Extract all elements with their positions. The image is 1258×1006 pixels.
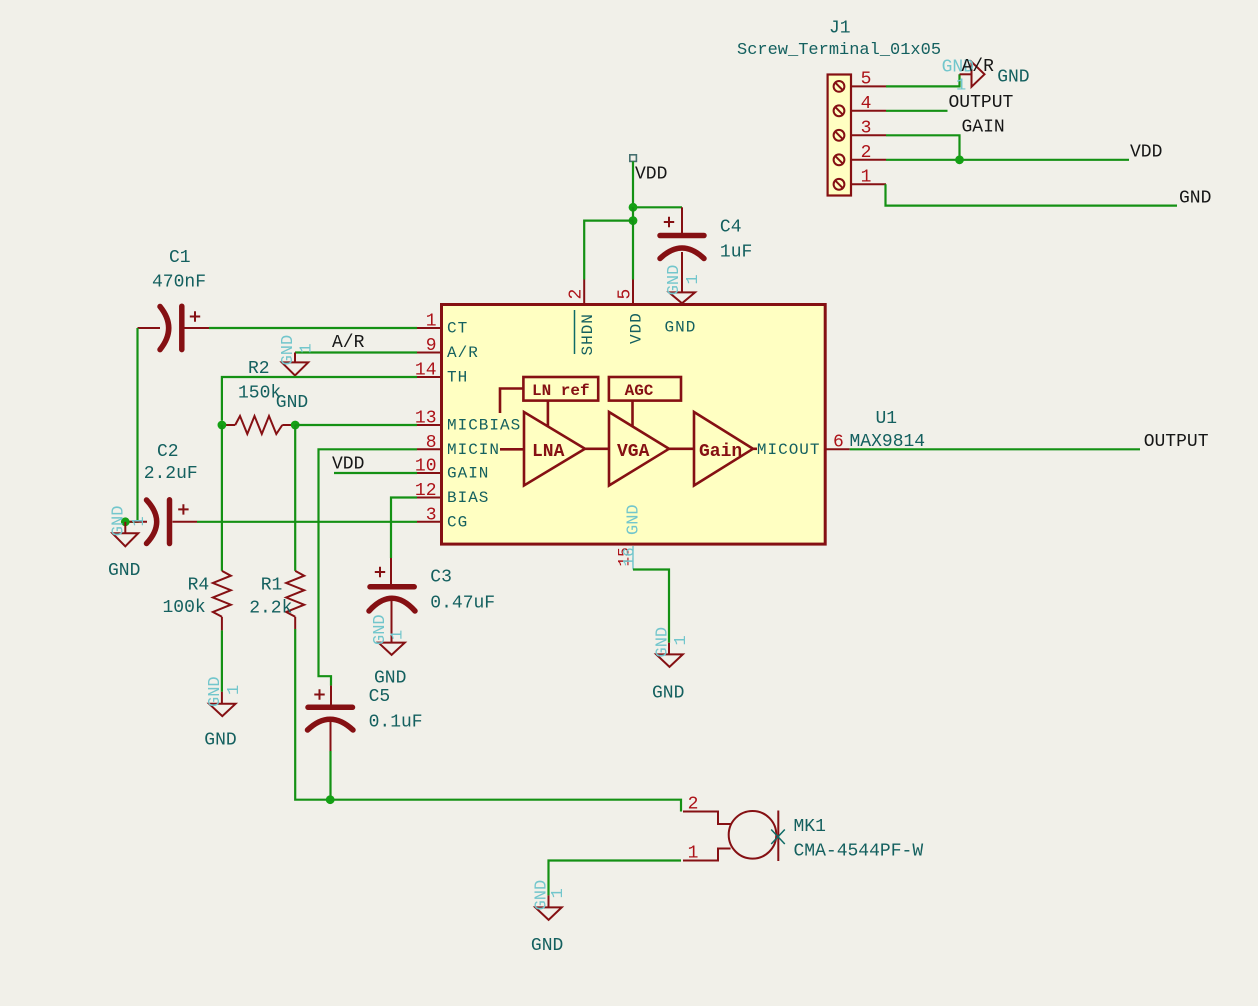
svg-text:GND: GND	[665, 265, 684, 296]
internal line MICIN to LNA	[500, 448, 524, 451]
wire J1 pin1 GND	[886, 184, 1178, 205]
wire R2 right junction down to R1	[294, 425, 296, 571]
svg-text:2.2uF: 2.2uF	[144, 464, 198, 484]
wire junction to junction	[632, 207, 634, 220]
svg-text:GND: GND	[108, 561, 140, 581]
wire U1 pin9 A/R to ground	[295, 351, 417, 353]
svg-text:A/R: A/R	[447, 344, 479, 362]
svg-text:R1: R1	[261, 576, 283, 596]
svg-text:2: 2	[861, 143, 872, 163]
wire VDD label to U1 pin10 GAIN	[334, 472, 417, 474]
svg-text:1: 1	[426, 312, 437, 332]
svg-text:VDD: VDD	[635, 165, 667, 185]
svg-text:2: 2	[688, 795, 699, 815]
svg-text:SHDN: SHDN	[579, 313, 597, 355]
svg-text:1: 1	[684, 274, 703, 284]
U1 pin 14 TH	[415, 361, 468, 387]
svg-text:C5: C5	[369, 687, 391, 707]
svg-text:Gain: Gain	[699, 442, 742, 462]
microphone MK1	[683, 795, 785, 864]
svg-text:GND: GND	[997, 68, 1029, 88]
svg-text:C3: C3	[430, 568, 452, 588]
svg-text:16: 16	[621, 547, 639, 566]
wire U1 pin8 MICIN down to C5	[319, 449, 418, 685]
junction C5 on rail	[326, 795, 335, 804]
svg-text:C4: C4	[720, 218, 742, 238]
J1 pin 4	[852, 94, 886, 114]
wire U1 pin12 BIAS down to C3	[391, 498, 417, 559]
resistor R2	[226, 416, 291, 434]
wire VDD to C4	[633, 206, 682, 208]
svg-text:A/R: A/R	[962, 57, 995, 77]
ground symbol at R4	[204, 676, 244, 750]
wire J1 pin3 to junction	[886, 135, 960, 160]
capacitor C4	[660, 207, 704, 292]
svg-text:J1: J1	[829, 19, 851, 39]
svg-text:GND: GND	[371, 614, 390, 645]
svg-text:GND: GND	[279, 335, 298, 366]
svg-text:2: 2	[567, 289, 587, 300]
J1 pin 2	[852, 143, 886, 163]
svg-text:GAIN: GAIN	[962, 118, 1005, 138]
svg-text:GND: GND	[531, 936, 563, 956]
svg-text:GND: GND	[1179, 189, 1211, 209]
internal box LN ref	[523, 377, 598, 401]
wire R4 to ground	[221, 630, 223, 691]
svg-text:BIAS: BIAS	[447, 489, 489, 507]
internal line Gain to MICOUT	[753, 447, 757, 450]
U1 pin name SHDN with overline	[575, 310, 598, 356]
svg-text:MICOUT: MICOUT	[757, 441, 821, 459]
svg-text:GND: GND	[665, 319, 697, 337]
wire J1 pin4 OUTPUT	[886, 110, 948, 112]
svg-text:VDD: VDD	[332, 455, 364, 475]
wire microphone pin1 to ground	[549, 861, 682, 896]
svg-text:3: 3	[861, 119, 872, 139]
svg-text:0.47uF: 0.47uF	[430, 594, 495, 614]
wire J1 pin2 VDD	[886, 159, 1129, 161]
resistor R4	[213, 571, 231, 631]
svg-text:1: 1	[688, 844, 699, 864]
wire R1 down and bottom rail to microphone pin2	[295, 629, 681, 812]
svg-text:GND: GND	[374, 669, 406, 689]
U1 pin 10 GAIN	[415, 457, 490, 483]
U1 pin 3 CG	[417, 505, 468, 531]
internal line LNA to VGA	[585, 447, 609, 450]
J1 pin 1	[852, 168, 886, 188]
svg-text:Screw_Terminal_01x05: Screw_Terminal_01x05	[737, 41, 941, 60]
svg-text:VGA: VGA	[617, 442, 650, 462]
junction R2 right	[291, 421, 300, 430]
U1 pin 1 CT	[417, 312, 468, 338]
power symbol VDD	[630, 155, 668, 185]
wire J1 pin5 to GND	[886, 74, 960, 86]
junction J1 pin2/pin3	[955, 155, 964, 164]
U1 pin 12 BIAS	[415, 481, 490, 507]
U1 pin 5 VDD stub	[616, 280, 636, 304]
svg-text:OUTPUT: OUTPUT	[1144, 432, 1209, 452]
connector J1 body	[828, 75, 851, 196]
svg-text:GND: GND	[652, 684, 684, 704]
svg-text:CT: CT	[447, 320, 468, 338]
ground symbol at U1 pin9	[279, 335, 317, 376]
wire R2 right to U1 pin13	[295, 424, 417, 426]
capacitor C3	[369, 558, 415, 643]
U1 pin 6 MICOUT	[757, 432, 850, 459]
svg-text:MICIN: MICIN	[447, 441, 500, 459]
svg-text:5: 5	[861, 70, 872, 90]
svg-text:1: 1	[672, 635, 691, 645]
svg-text:6: 6	[833, 432, 844, 452]
amplifier LNA	[524, 412, 585, 486]
svg-text:GND: GND	[204, 731, 236, 751]
op-amp IC U1 body	[442, 305, 826, 545]
svg-text:GND: GND	[109, 506, 128, 537]
svg-text:1: 1	[389, 630, 408, 640]
wire VDD to U1 pin5	[632, 221, 634, 280]
wire C5 bottom to rail	[329, 751, 331, 800]
U1 pin 13 MICBIAS	[415, 409, 521, 435]
junction R2 left	[218, 421, 227, 430]
svg-text:150k: 150k	[238, 384, 281, 404]
svg-text:C2: C2	[157, 442, 179, 462]
capacitor C5	[308, 686, 354, 751]
U1 pin 8 MICIN	[417, 433, 500, 459]
internal line AGC to VGA	[631, 401, 634, 426]
ground symbol at C3	[371, 614, 408, 688]
wire U1 hidden GND pin to ground	[633, 570, 669, 643]
ground symbol at microphone	[531, 880, 568, 956]
svg-text:LNA: LNA	[532, 442, 565, 462]
junction C2 ground node	[121, 517, 130, 526]
svg-text:R2: R2	[248, 359, 270, 379]
svg-text:GND: GND	[654, 627, 673, 658]
svg-text:GND: GND	[625, 504, 644, 535]
ground symbol at C4	[665, 265, 703, 304]
svg-text:13: 13	[415, 409, 437, 429]
svg-text:GND: GND	[206, 676, 225, 707]
svg-text:R4: R4	[188, 576, 210, 596]
svg-text:2.2k: 2.2k	[249, 599, 292, 619]
svg-text:1: 1	[861, 168, 872, 188]
svg-text:14: 14	[415, 361, 437, 381]
wire to SHDN branch	[584, 221, 633, 280]
svg-text:1: 1	[298, 343, 317, 353]
svg-text:TH: TH	[447, 369, 468, 387]
svg-text:4: 4	[861, 94, 872, 114]
capacitor C2	[129, 500, 197, 544]
svg-text:470nF: 470nF	[152, 273, 206, 293]
svg-text:CG: CG	[447, 513, 468, 531]
svg-text:1: 1	[225, 685, 244, 695]
svg-text:LN ref: LN ref	[532, 382, 590, 400]
svg-text:100k: 100k	[163, 598, 206, 618]
amplifier Gain	[694, 412, 753, 486]
svg-text:8: 8	[426, 433, 437, 453]
internal box AGC	[609, 377, 681, 401]
wire U1 pin3 CG to C2	[197, 521, 417, 523]
J1 pin 5	[852, 70, 886, 90]
wire U1 MICOUT to OUTPUT	[850, 448, 1140, 450]
amplifier VGA	[609, 412, 669, 486]
svg-text:1: 1	[549, 888, 568, 898]
wire R2 left junction down to R4	[221, 425, 223, 571]
wire C1 to U1 pin1 CT	[209, 327, 417, 329]
capacitor C1	[138, 306, 210, 349]
svg-text:1: 1	[130, 516, 149, 526]
junction VDD upper	[629, 203, 638, 212]
svg-text:C1: C1	[169, 248, 191, 268]
svg-text:12: 12	[415, 481, 437, 501]
ground symbol at J1 pin5 (rotated right)	[942, 58, 985, 96]
svg-text:CMA-4544PF-W: CMA-4544PF-W	[794, 842, 924, 862]
svg-text:VDD: VDD	[1130, 143, 1162, 163]
wire C1 left down to C2 node	[130, 328, 138, 522]
svg-text:GAIN: GAIN	[447, 465, 489, 483]
svg-text:0.1uF: 0.1uF	[369, 713, 423, 733]
internal line MICBIAS to LN ref	[500, 389, 523, 414]
svg-text:VDD: VDD	[628, 312, 646, 344]
U1 pin 9 A/R	[417, 336, 479, 362]
svg-text:5: 5	[616, 289, 636, 300]
svg-text:A/R: A/R	[332, 333, 365, 353]
svg-text:MICBIAS: MICBIAS	[447, 417, 521, 435]
svg-text:10: 10	[415, 457, 437, 477]
svg-text:1uF: 1uF	[720, 243, 752, 263]
svg-text:9: 9	[426, 336, 437, 356]
U1 hidden GND pin numbers	[616, 546, 639, 570]
svg-text:MK1: MK1	[794, 817, 826, 837]
wire VDD symbol down	[632, 161, 634, 207]
junction VDD lower	[629, 216, 638, 225]
J1 pin 3	[852, 119, 886, 139]
svg-text:OUTPUT: OUTPUT	[949, 93, 1014, 113]
wire U1 pin14 TH to R2	[222, 377, 417, 421]
internal line VGA to Gain	[669, 447, 694, 450]
svg-text:AGC: AGC	[625, 382, 654, 400]
internal line LN ref to LNA	[547, 401, 550, 426]
ground symbol below U1	[652, 627, 691, 704]
svg-text:U1: U1	[876, 409, 898, 429]
ground symbol at C2	[108, 506, 149, 581]
resistor R1	[286, 571, 304, 629]
svg-text:3: 3	[426, 505, 437, 525]
U1 pin 2 SHDN stub	[567, 280, 587, 304]
